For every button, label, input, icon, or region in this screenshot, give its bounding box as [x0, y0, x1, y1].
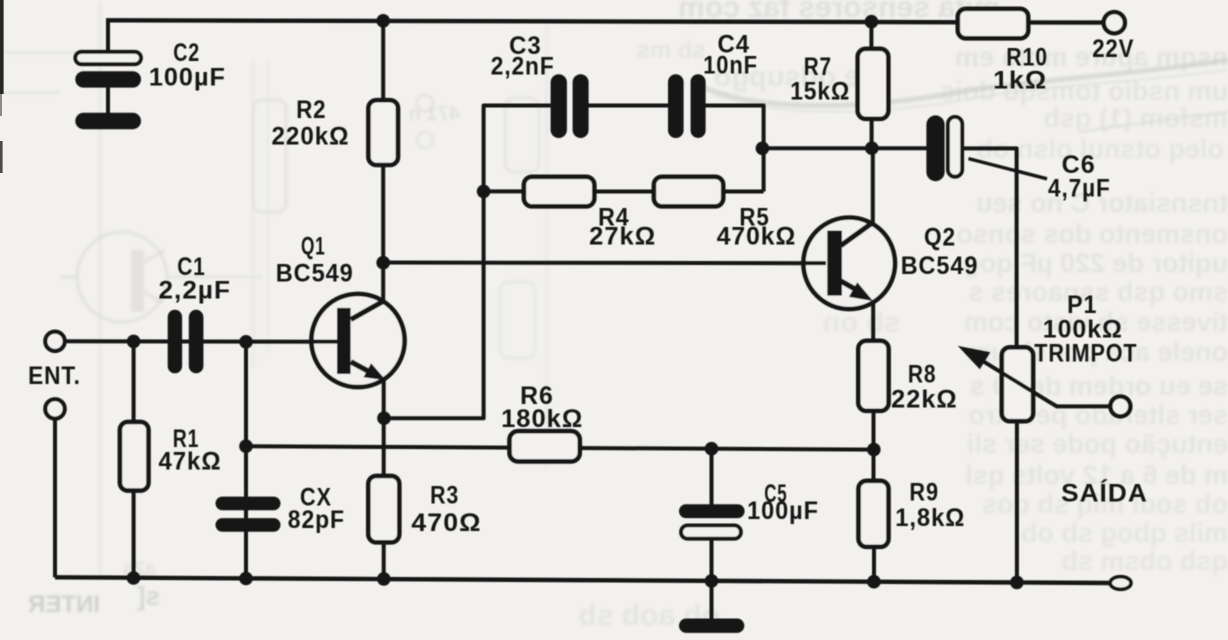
capacitor C6 plate 1 [926, 115, 944, 181]
trimpot P1 body [1002, 347, 1033, 421]
node ground at C5 [705, 574, 719, 588]
svg-text:R9: R9 [909, 479, 939, 507]
wire input lower drop [53, 419, 57, 578]
node twin-T right [756, 142, 770, 156]
wire Q2 emitter column [871, 301, 875, 342]
node ground at P1 [1010, 576, 1024, 590]
transistor Q2 base wire inside [804, 261, 826, 265]
svg-text:4,7µF: 4,7µF [1048, 175, 1111, 203]
wire R7 top stub [869, 22, 873, 50]
scan edge marks [0, 0, 4, 94]
ghost print-through shapes [77, 232, 167, 322]
wire Q2 collector column [871, 148, 875, 223]
transistor Q1 base bar [337, 308, 351, 374]
capacitor C5 plate 2 hollow [681, 525, 741, 538]
capacitor C1 plate 1 [168, 310, 182, 374]
svg-text:220kΩ: 220kΩ [272, 123, 350, 151]
svg-text:2,2µF: 2,2µF [159, 277, 232, 305]
wire emitter to twin-T left leg [384, 106, 551, 419]
node R7 bottom [865, 141, 879, 155]
resistor R7 [858, 49, 889, 119]
svg-text:sb on: sb on [823, 307, 900, 339]
svg-text:uqitor de 220 µF qog: uqitor de 220 µF qog [963, 248, 1228, 278]
transistor Q2 collector lead [841, 223, 873, 246]
svg-text:msfom (1) qsb: msfom (1) qsb [1043, 103, 1228, 133]
transistor Q1 collector lead [351, 301, 384, 319]
wire P1 bottom column [1015, 421, 1019, 582]
node ground at R9 [867, 575, 881, 589]
capacitor C2 negative plate [75, 71, 141, 87]
wire C5 bottom stub [710, 538, 714, 581]
svg-text:BC549: BC549 [276, 260, 354, 288]
transistor Q1 emitter arrow [364, 363, 386, 380]
svg-text:1,8kΩ: 1,8kΩ [895, 504, 965, 532]
resistor R2 [368, 100, 398, 165]
wire C2 stem from rail [106, 20, 110, 52]
svg-text:s[: s[ [137, 581, 160, 611]
transistor Q1 emitter lead [351, 362, 375, 375]
svg-text:mils qbog sb ob: mils qbog sb ob [1021, 518, 1228, 548]
wire C5 top stub [710, 449, 714, 505]
svg-text:R7: R7 [804, 53, 832, 81]
svg-text:ENT.: ENT. [28, 362, 81, 390]
node ground at CX [239, 572, 253, 586]
trimpot P1 arrow [958, 346, 991, 369]
svg-text:TRIMPOT: TRIMPOT [1034, 340, 1137, 368]
wire R1 column [132, 341, 136, 578]
capacitor C5 plate 1 [679, 504, 745, 518]
node ground at R3 [377, 572, 391, 586]
faint column rules [99, 2, 102, 578]
ground bar below C5 [679, 619, 744, 633]
wire Q1 emitter / R3 column [382, 379, 386, 579]
node R8-R9 junction [867, 443, 881, 457]
wire C6 label pointer [969, 159, 1048, 179]
wire R2 collector column [381, 21, 385, 302]
terminal 22V [1104, 12, 1125, 33]
wire twin-T top right [706, 106, 764, 192]
transistor Q2 body [803, 217, 895, 309]
svg-text:sb ms: sb ms [637, 37, 706, 64]
svg-text:onsmento dos sonso: onsmento dos sonso [956, 219, 1228, 249]
node Q1 emitter [377, 411, 391, 425]
terminal output lower [1110, 577, 1131, 590]
svg-text:470Ω: 470Ω [411, 509, 481, 537]
resistor R4 [524, 177, 594, 207]
node top rail at R7 [865, 15, 879, 29]
capacitor C4 plate 1 [668, 74, 684, 138]
capacitor C4 plate 2 [691, 74, 706, 138]
svg-text:qsb obsm sb: qsb obsm sb [1061, 546, 1228, 576]
wire twin-T bottom right [723, 190, 764, 194]
node top rail at R2 [376, 14, 390, 28]
svg-text:R8: R8 [908, 360, 937, 388]
svg-text:180kΩ: 180kΩ [501, 405, 583, 433]
wire C5 ground stem below rail [710, 581, 714, 619]
svg-text:BC549: BC549 [901, 252, 979, 280]
resistor R5 [654, 177, 723, 207]
svg-text:smo qsb ssnaores s: smo qsb ssnaores s [968, 277, 1228, 307]
node input at CX [239, 335, 253, 349]
transistor Q1 base wire inside [313, 340, 337, 344]
svg-text:27kΩ: 27kΩ [589, 222, 656, 250]
transistor Q2 emitter lead [841, 281, 861, 292]
capacitor C3 plate 2 [573, 74, 589, 138]
node input at R1 [127, 335, 141, 349]
node R6 at CX column [239, 439, 253, 453]
crease scratch [700, 60, 1228, 106]
node twin-T left [477, 185, 491, 199]
capacitor C1 plate 2 [189, 310, 204, 374]
svg-text:22kΩ: 22kΩ [891, 386, 958, 414]
svg-text:SAÍDA: SAÍDA [1061, 479, 1148, 508]
transistor Q2 emitter arrow [849, 282, 873, 301]
terminal ENT lower [45, 399, 64, 418]
wire twin-T top C3-C4 link [589, 104, 669, 108]
wire twin-T R4-R5 link [594, 190, 654, 194]
wire twin-T bottom left [484, 189, 525, 193]
wire bottom ground rail [55, 577, 1110, 583]
wire P1 wiper diagonal [975, 356, 1053, 404]
terminal output upper [1110, 396, 1130, 416]
wire R6 feedback line [246, 446, 874, 449]
transistor Q1 body [311, 294, 404, 387]
wire Q1 collector to Q2 base coupling line [383, 261, 827, 266]
svg-text:entução pode ser sli: entução pode ser sli [967, 429, 1228, 459]
capacitor CX plate 2 [216, 518, 281, 532]
transistor Q2 base bar [827, 231, 842, 296]
wire C6 to P1 top corner [962, 148, 1016, 347]
resistor R10 [958, 9, 1028, 39]
resistor R9 [859, 481, 889, 547]
capacitor C2 positive plate [75, 52, 141, 64]
svg-text:471 n: 471 n [409, 103, 460, 125]
resistor R3 [368, 476, 399, 542]
resistor R6 [510, 431, 580, 461]
terminal ENT upper [45, 332, 64, 351]
wire twin-T output to R7 node [762, 146, 926, 150]
svg-text:Q1: Q1 [301, 233, 325, 261]
node R6 at C5 [705, 442, 719, 456]
svg-text:INTER: INTER [28, 591, 100, 618]
capacitor C6 plate 2 hollow [948, 117, 962, 177]
svg-text:100µF: 100µF [747, 497, 819, 525]
svg-text:82pF: 82pF [288, 506, 345, 534]
svg-text:Q2: Q2 [924, 224, 956, 252]
svg-text:22V: 22V [1092, 35, 1134, 63]
capacitor CX plate 1 [216, 497, 281, 511]
node Q1 collector [376, 256, 390, 270]
wire R8 to R9 column [872, 411, 876, 482]
wire C2 lower stem [106, 87, 110, 114]
svg-text:1kΩ: 1kΩ [993, 66, 1047, 94]
ground bar below C2 [75, 113, 141, 129]
svg-text:10nF: 10nF [703, 51, 758, 79]
svg-text:R2: R2 [296, 96, 326, 124]
wire P1 wiper to output [1053, 404, 1111, 407]
capacitor C3 plate 1 [551, 74, 567, 138]
resistor R1 [120, 422, 149, 491]
wire R7 bottom stub [870, 119, 874, 149]
wire CX column [244, 342, 248, 579]
svg-text:2,2nF: 2,2nF [491, 52, 555, 80]
wire R9 bottom stub [872, 546, 876, 581]
wire input line to Q1 base [65, 339, 338, 344]
wire top supply rail [106, 20, 1104, 22]
svg-text:47kΩ: 47kΩ [159, 447, 222, 475]
node ground at R1 [127, 571, 141, 585]
svg-text:R3: R3 [430, 481, 459, 509]
svg-text:470kΩ: 470kΩ [717, 222, 797, 250]
svg-text:100µF: 100µF [149, 63, 226, 91]
svg-text:15kΩ: 15kΩ [790, 78, 850, 106]
resistor R8 [858, 341, 888, 411]
